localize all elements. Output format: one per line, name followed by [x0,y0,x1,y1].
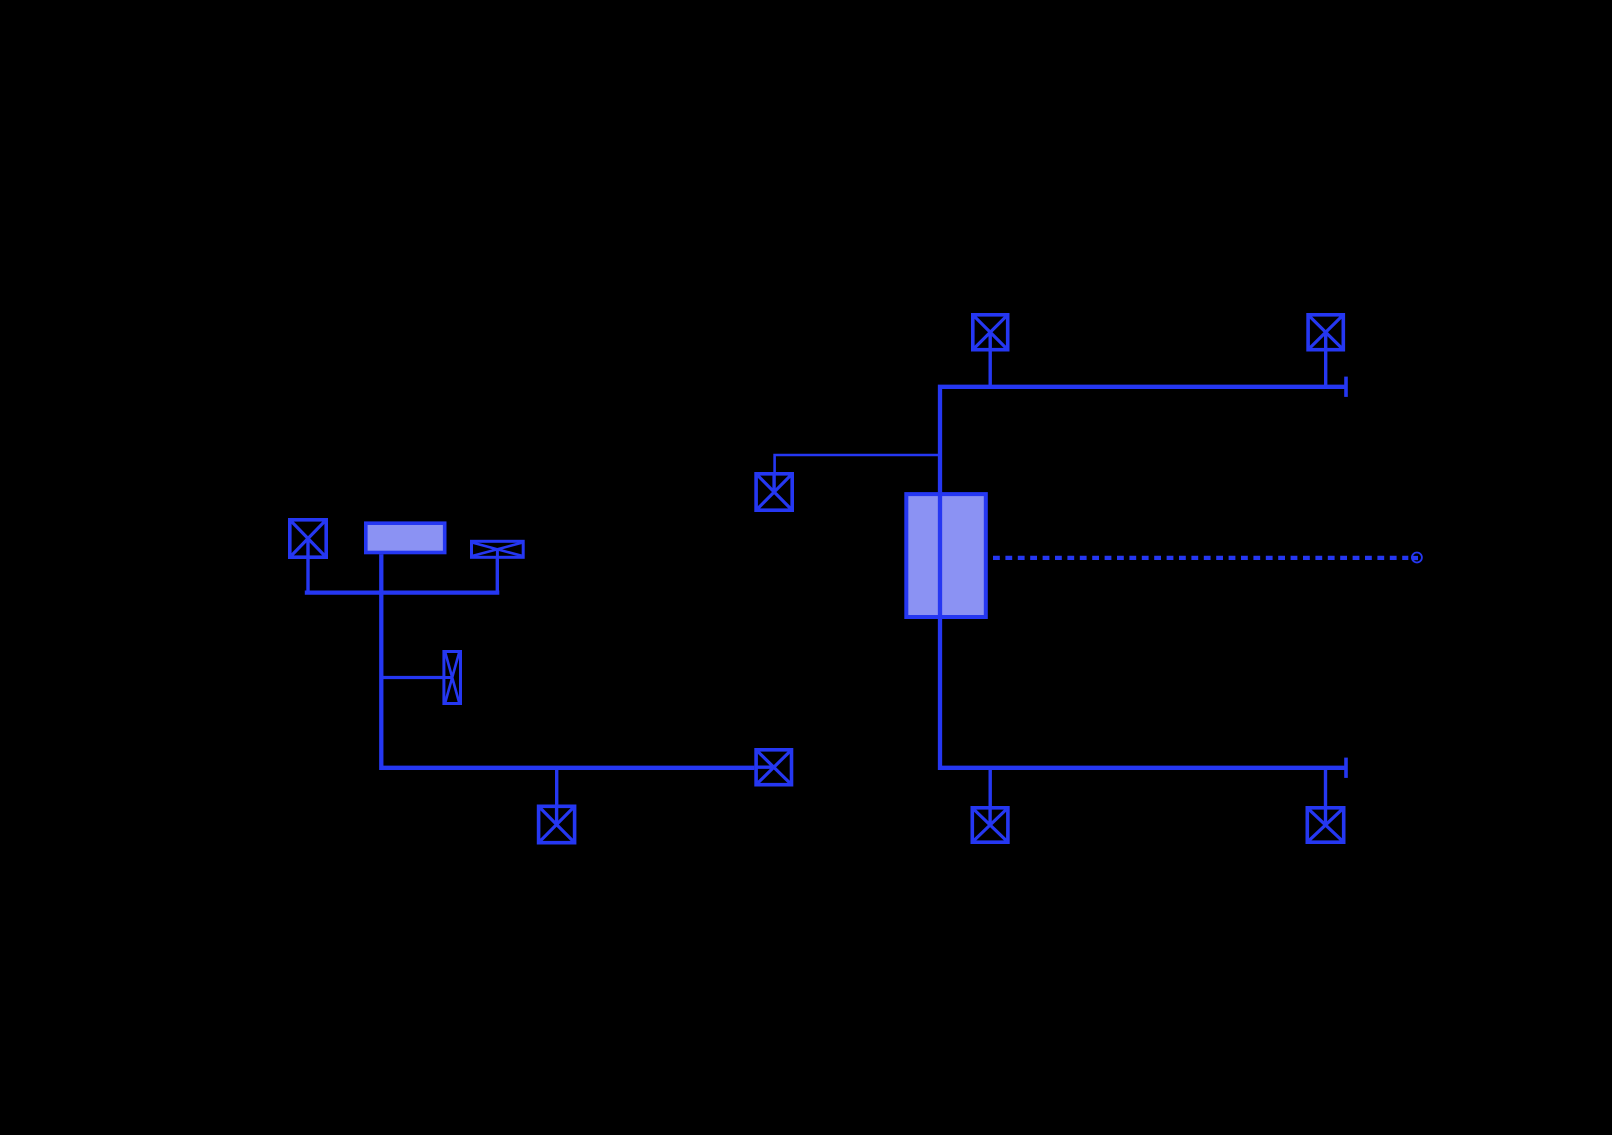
wire D5 drop [1324,351,1327,387]
wire drop to diffuser D7 [989,768,992,807]
supply diffuser D1 [290,520,326,559]
end cap bottom header [1344,758,1348,778]
diffuser D7 [972,806,1008,842]
fan F1 (wide crossed box) [472,541,524,559]
diffuser D8 [1307,806,1343,842]
diffuser D5 (top right) [1308,315,1343,352]
diffuser D6 [756,472,792,510]
wire UH1 riser down + run to diffuser D2 [381,554,754,768]
wire drop to diffuser D8 [1324,768,1327,807]
end cap top header [1344,377,1348,397]
wire F1 drop to header [496,558,499,592]
control line (dashed) from AHU1 [993,556,1408,560]
diffuser D4 (top left of riser) [973,315,1008,352]
sensor T1 dot [1413,556,1418,560]
valve V1 (vertical crossed box) [442,652,460,704]
sensor T1 (circle terminal) [1412,553,1422,563]
wire left header (horizontal) [305,590,500,594]
wire D1 drop to header [306,558,309,593]
wire drop to diffuser D3 [555,768,558,806]
air handling unit AHU1 (filled box) [906,494,986,617]
wire D4 drop [989,351,992,387]
wire branch to valve V1 [381,676,443,679]
wire riser through AHU1 [938,492,942,619]
diffuser D3 [539,805,575,843]
wire branch to diffuser D6 [775,455,940,473]
wire main riser + top and bottom headers [940,387,1346,768]
unit heater UH1 (filled box) [366,523,445,552]
diffuser D2 (end of left run) [754,750,791,785]
